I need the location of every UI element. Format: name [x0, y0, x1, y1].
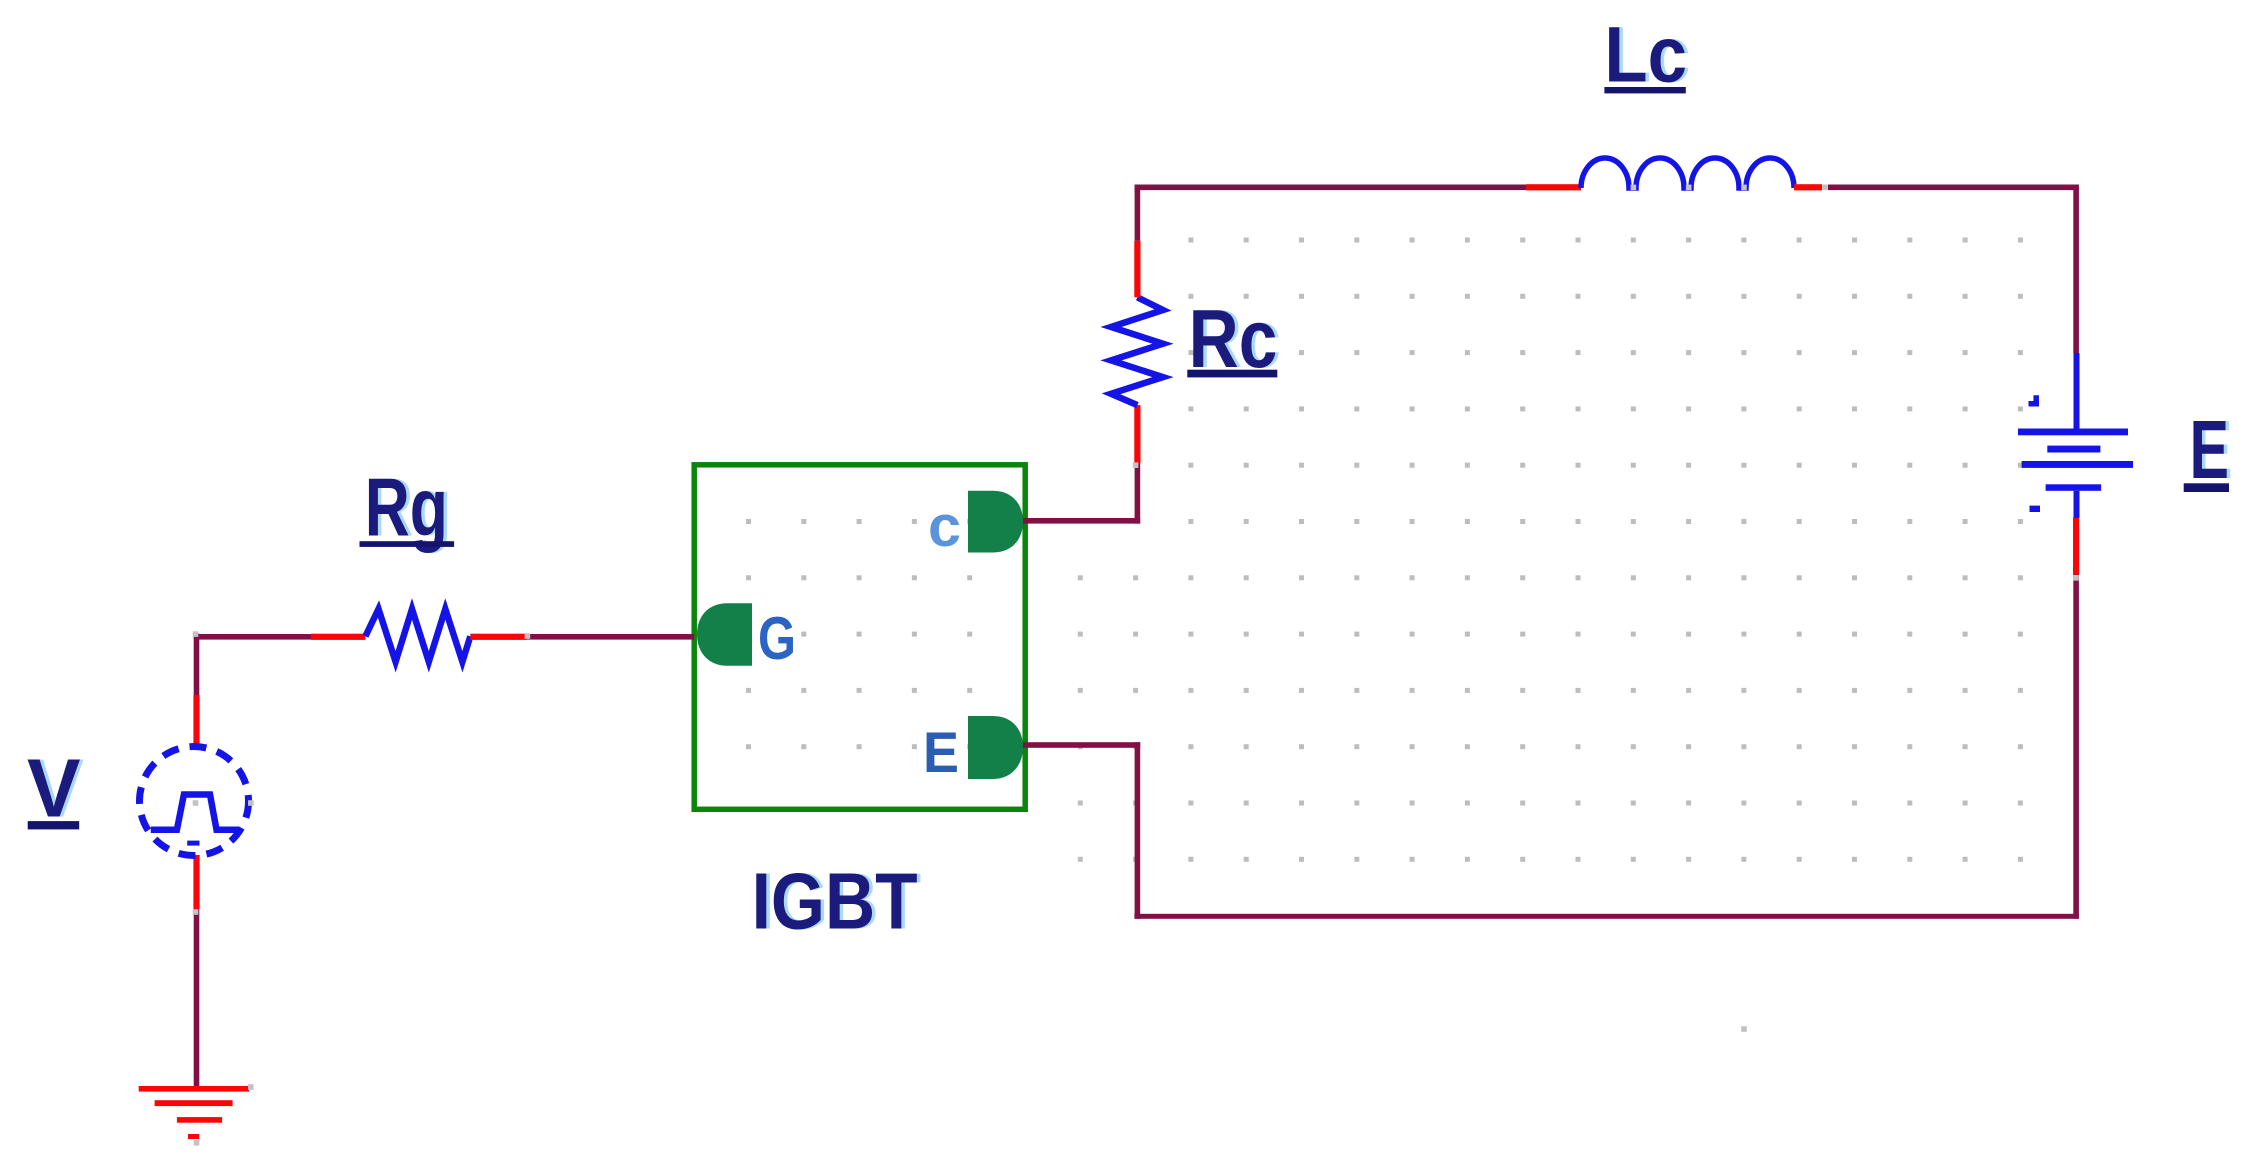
- wire Rc top lead (red): [1134, 241, 1140, 297]
- wire Rg right lead (red): [470, 634, 527, 640]
- wire V-source bottom lead (red): [193, 855, 199, 909]
- wire V-source top (maroon): [194, 634, 200, 696]
- wire battery to bottom-right corner (maroon): [2073, 575, 2079, 919]
- svg-text:c: c: [928, 494, 961, 559]
- junction dot below Rc: [1133, 462, 1139, 468]
- ground bar 1: [139, 1086, 249, 1092]
- wire bottom (IGBT emitter to battery, maroon): [1134, 914, 2078, 919]
- svg-text:E: E: [923, 721, 959, 785]
- grid dots lower-right field: [1078, 575, 2023, 862]
- battery E plate 1 long: [2018, 429, 2128, 436]
- ground bar 2: [155, 1100, 233, 1106]
- junction dot below battery: [2073, 575, 2079, 581]
- lone grid dot below bottom wire: [1741, 1026, 1747, 1032]
- junction dot right of Rg: [525, 633, 531, 639]
- resistor Rc zigzag: [1111, 297, 1163, 405]
- svg-text:E: E: [2190, 403, 2230, 496]
- svg-text:Rg: Rg: [365, 461, 448, 554]
- wire c corner up to Rc (maroon): [1135, 463, 1141, 524]
- svg-text:Lc: Lc: [1604, 10, 1687, 98]
- grid dot at V circle center: [193, 800, 199, 806]
- inductor Lc coil: [1581, 158, 1794, 188]
- battery plus mark: [2029, 395, 2040, 406]
- voltage source V circle (dashed blue): [140, 747, 249, 856]
- battery E top lead (blue): [2074, 353, 2080, 430]
- junction dot at V/Rg corner: [193, 631, 199, 637]
- wire E corner down to bottom net (maroon): [1135, 742, 1141, 919]
- voltage source V pulse waveform: [151, 795, 238, 830]
- underline of Lc label: [1604, 87, 1685, 93]
- IGBT collector pin c (green): [968, 491, 1023, 553]
- grid dot right of V circle: [248, 800, 254, 806]
- svg-text:V: V: [27, 742, 81, 834]
- resistor Rg zigzag: [365, 609, 470, 662]
- battery E plate 4 short: [2046, 484, 2102, 491]
- transistor IGBT body box: [694, 465, 1025, 810]
- underline of E label: [2184, 483, 2229, 492]
- grid dots upper-right field: [1188, 238, 2023, 525]
- svg-text:G: G: [758, 605, 796, 672]
- wire Lc left lead (red): [1526, 184, 1581, 190]
- underline of Rg label: [360, 541, 455, 547]
- grid dots inside IGBT box: [746, 519, 972, 749]
- underline of Rc label: [1187, 370, 1277, 378]
- grid dot in Lc dip 2: [1686, 185, 1692, 191]
- wire battery bottom lead (red): [2073, 518, 2079, 575]
- grid dot in Lc dip 1: [1631, 185, 1637, 191]
- voltage source V inner dash: [187, 841, 199, 846]
- IGBT emitter pin E (green): [968, 716, 1023, 779]
- wire Lc right lead (red): [1794, 184, 1822, 190]
- wire V to Rg (maroon): [194, 634, 311, 640]
- ground bar 4: [188, 1134, 199, 1139]
- battery E plate 2 short: [2047, 446, 2100, 453]
- wire Rc-top to Lc (maroon): [1135, 185, 1526, 191]
- IGBT gate pin G (green): [697, 603, 752, 666]
- junction dot below ground: [194, 1140, 200, 1146]
- junction dot right of Lc: [1822, 185, 1828, 191]
- wire top-right corner down to battery (maroon): [2073, 185, 2079, 354]
- battery E plate 3 long: [2022, 461, 2133, 468]
- junction dot below V source: [193, 909, 199, 915]
- wire IGBT E pin to corner (maroon): [1023, 742, 1140, 748]
- battery minus mark: [2030, 506, 2041, 512]
- wire Rc bottom lead (red): [1134, 405, 1140, 463]
- wire Rg to IGBT gate (maroon): [527, 634, 694, 640]
- wire IGBT c pin to corner (maroon): [1023, 518, 1140, 524]
- wire Lc to top-right corner (maroon): [1828, 185, 2079, 191]
- battery E bottom lead (blue): [2074, 491, 2080, 518]
- svg-text:IGBT: IGBT: [752, 857, 918, 946]
- junction dot at ground bar end: [248, 1084, 254, 1090]
- ground bar 3: [177, 1117, 222, 1123]
- underline of V label: [28, 821, 79, 829]
- wire V-source to ground (maroon): [194, 909, 200, 1090]
- wire Rc to top net (maroon): [1135, 185, 1141, 241]
- wire Rg left lead (red): [311, 634, 365, 640]
- grid dot in Lc dip 3: [1741, 185, 1747, 191]
- wire V-source top lead (red): [193, 695, 199, 747]
